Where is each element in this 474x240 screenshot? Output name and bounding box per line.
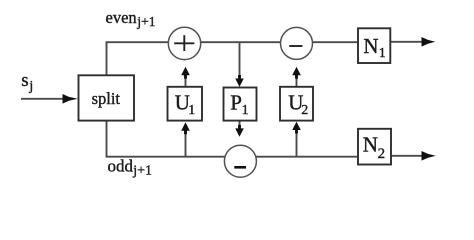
- svg-text:s: s: [21, 70, 28, 91]
- svg-text:2: 2: [378, 146, 386, 162]
- svg-text:split: split: [92, 89, 121, 108]
- svg-text:j+1: j+1: [136, 14, 155, 29]
- svg-text:j: j: [28, 79, 33, 94]
- svg-text:1: 1: [242, 103, 249, 118]
- svg-text:N: N: [363, 133, 378, 157]
- svg-text:1: 1: [379, 46, 386, 61]
- svg-text:odd: odd: [108, 157, 134, 176]
- svg-text:even: even: [106, 8, 137, 27]
- svg-text:j+1: j+1: [132, 164, 152, 179]
- svg-text:1: 1: [188, 103, 195, 118]
- svg-text:2: 2: [301, 103, 308, 118]
- svg-text:N: N: [363, 34, 378, 58]
- svg-text:P: P: [230, 91, 242, 115]
